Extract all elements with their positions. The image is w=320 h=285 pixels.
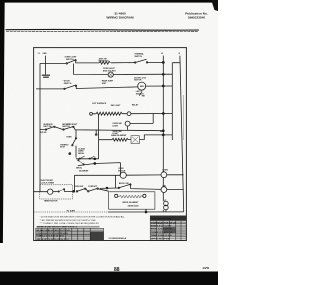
svg-text:AND SOCKET: AND SOCKET xyxy=(103,70,117,73)
svg-text:OVEN SWITCH CHART: OVEN SWITCH CHART xyxy=(151,218,173,221)
svg-text:88: 88 xyxy=(114,267,120,273)
svg-text:UNIT SW: UNIT SW xyxy=(43,126,51,128)
svg-text:LIGHT: LIGHT xyxy=(112,126,119,128)
svg-text:BROIL SW: BROIL SW xyxy=(119,183,129,185)
svg-text:RF RR: RF RR xyxy=(41,132,48,134)
svg-text:SWITCH: SWITCH xyxy=(62,126,70,128)
svg-text:ELEMENT: ELEMENT xyxy=(79,170,89,172)
svg-text:RESISTOR: RESISTOR xyxy=(99,61,109,63)
svg-text:BROIL 1-2 5-6 OP N B: BROIL 1-2 5-6 OP N B xyxy=(151,229,172,231)
svg-text:CONTACT: CONTACT xyxy=(88,185,98,188)
svg-text:WIRING DIAGRAM: WIRING DIAGRAM xyxy=(106,16,134,20)
svg-text:OFF CL OP CL OP CL OP CL OP C: OFF CL OP CL OP CL OP CL OP C xyxy=(36,239,69,241)
svg-text:IND: IND xyxy=(163,185,167,187)
svg-text:TIMED 2-3 4-6 CL N B: TIMED 2-3 4-6 CL N B xyxy=(151,234,172,237)
svg-text:TIMER MOTOR: TIMER MOTOR xyxy=(44,201,58,203)
svg-text:** ALL WIRING SHOWN IS WITH 24: ** ALL WIRING SHOWN IS WITH 240 VOLT SUP… xyxy=(40,219,96,222)
svg-text:SWITCH: SWITCH xyxy=(66,59,74,61)
svg-text:SURFACE UNIT SWITCH CHART N PO: SURFACE UNIT SWITCH CHART N POS L1 xyxy=(37,226,78,229)
svg-text:GND: GND xyxy=(42,53,47,55)
svg-text:MOTOR: MOTOR xyxy=(118,170,126,172)
svg-text:*** CONNECT PER LOCAL CODES ON: *** CONNECT PER LOCAL CODES ONLY AS REQU… xyxy=(40,222,100,225)
svg-text:OVEN SELECTOR SW CH: OVEN SELECTOR SW CH xyxy=(151,222,176,224)
svg-text:IND LIGHT: IND LIGHT xyxy=(111,105,122,107)
svg-text:RELAY: RELAY xyxy=(132,104,139,107)
svg-text:SWITCH: SWITCH xyxy=(136,93,144,95)
svg-text:OFF NC NC OP N B: OFF NC NC OP N B xyxy=(151,238,170,240)
svg-text:BROIL: BROIL xyxy=(78,153,85,155)
svg-text:BAKE ELEMENT: BAKE ELEMENT xyxy=(111,134,127,137)
svg-text:BK W R OR BU GY BR Y PU TN GN: BK W R OR BU GY BR Y PU TN GN xyxy=(36,230,70,232)
svg-text:TO SURF: TO SURF xyxy=(67,210,76,212)
svg-text:OVEN: OVEN xyxy=(66,137,72,139)
svg-text:MDL: MDL xyxy=(140,86,145,88)
svg-text:MOTOR: MOTOR xyxy=(134,80,142,82)
svg-text:* DOOR SWITCH IS SHOWN WITH OV: * DOOR SWITCH IS SHOWN WITH OVEN DOOR IN… xyxy=(40,216,126,219)
svg-text:OVEN SW: OVEN SW xyxy=(74,186,83,188)
svg-text:BROIL ELEMENT: BROIL ELEMENT xyxy=(123,202,140,204)
svg-text:SWITCH: SWITCH xyxy=(64,83,72,85)
svg-text:31-5995223540-A: 31-5995223540-A xyxy=(108,237,126,240)
svg-text:GVW: GVW xyxy=(203,266,210,270)
svg-text:CLOCK TIMER: CLOCK TIMER xyxy=(41,182,55,184)
svg-text:3400W 240V: 3400W 240V xyxy=(128,205,140,208)
svg-text:SWITCH: SWITCH xyxy=(134,56,142,58)
svg-text:L2: L2 xyxy=(161,53,163,55)
svg-text:L1 N H1 H2 P1 P2 LF RF RR LR H: L1 N H1 H2 P1 P2 LF RF RR LR H xyxy=(36,233,68,235)
svg-text:BROIL: BROIL xyxy=(76,167,83,169)
svg-text:L1: L1 xyxy=(38,53,40,55)
svg-text:HI ME LO 1 2 3 4 5 6 12 14 18: HI ME LO 1 2 3 4 5 6 12 14 18 xyxy=(36,235,64,238)
svg-text:5995223540: 5995223540 xyxy=(188,16,205,20)
svg-text:BAKE 1-2 3-4 CL N B: BAKE 1-2 3-4 CL N B xyxy=(151,225,172,228)
svg-text:CLEAN 1-2 3-4 CL Y B: CLEAN 1-2 3-4 CL Y B xyxy=(151,231,173,234)
svg-text:HOT SURFACE: HOT SURFACE xyxy=(92,102,107,105)
svg-text:STAT: STAT xyxy=(60,146,66,149)
